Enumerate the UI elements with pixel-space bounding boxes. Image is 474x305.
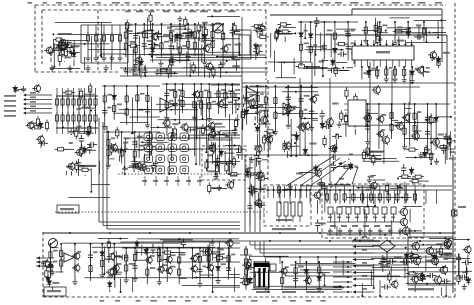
- central wiring drop: [124, 143, 126, 174]
- transistor Q100: [225, 180, 233, 189]
- resistor R213: [215, 163, 218, 175]
- transistor Q67: [189, 264, 197, 273]
- node junction: [191, 247, 193, 249]
- node junction: [304, 117, 306, 119]
- node junction: [218, 254, 220, 256]
- output wiring run: [452, 239, 470, 241]
- node junction: [228, 173, 230, 175]
- central wiring drop: [219, 133, 221, 174]
- value label: [137, 136, 143, 138]
- node junction: [358, 187, 360, 189]
- value label: [426, 260, 433, 262]
- central wiring run: [200, 134, 240, 136]
- node junction: [361, 66, 363, 68]
- bias bus: [56, 95, 98, 97]
- stripe wire: [333, 261, 352, 263]
- resistor R109: [201, 124, 204, 136]
- IF wiring run: [156, 72, 178, 74]
- transistor Q95: [107, 252, 115, 261]
- connector label: [30, 97, 36, 99]
- footer text mark: [99, 300, 104, 302]
- contact label: [355, 217, 359, 219]
- ground: [462, 284, 467, 290]
- audio driver top bus: [122, 247, 240, 249]
- part number label: [125, 11, 130, 13]
- ground: [377, 36, 382, 42]
- node junction: [193, 83, 195, 85]
- IC U2 bottom pin: [411, 60, 413, 67]
- bank2 wiring drop: [324, 186, 326, 212]
- power supply branch: [318, 262, 320, 287]
- node junction: [125, 247, 127, 249]
- wire: [150, 23, 152, 31]
- capacitor C4: [168, 42, 173, 52]
- IC U2 bottom pin: [367, 60, 369, 67]
- wire: [18, 88, 23, 90]
- header text mark: [183, 2, 188, 4]
- ground: [72, 279, 77, 285]
- footer text mark: [203, 300, 208, 302]
- wire: [437, 256, 451, 258]
- harness bend: [263, 241, 265, 257]
- switch contact: [373, 207, 378, 214]
- value label: [122, 168, 128, 170]
- node junction: [207, 266, 209, 268]
- footer text mark: [150, 300, 157, 302]
- value label: [398, 26, 403, 28]
- value label: [21, 88, 26, 90]
- audio driver branch: [178, 248, 180, 284]
- header text mark: [350, 2, 358, 4]
- switch lead: [348, 214, 350, 222]
- transistor Q59: [72, 251, 80, 260]
- bus wire lower: [352, 14, 442, 16]
- value label: [217, 131, 221, 133]
- central wiring run: [225, 144, 240, 146]
- bus wire: [441, 9, 443, 62]
- bank tail: [349, 228, 351, 236]
- bus wire: [446, 35, 448, 160]
- psu wiring drop: [265, 258, 267, 272]
- input wire: [36, 257, 54, 259]
- bottom wiring drop: [218, 241, 220, 255]
- wire: [109, 290, 111, 292]
- wire: [287, 151, 289, 158]
- harness label: [362, 236, 367, 238]
- node junction: [121, 131, 123, 133]
- resistor R187: [406, 272, 418, 275]
- resistor R193: [244, 246, 247, 258]
- IC U3 right pin: [366, 121, 370, 123]
- node junction: [267, 189, 269, 191]
- value label: [332, 103, 338, 105]
- tone stage branch: [246, 86, 248, 125]
- mic preamp branch: [60, 244, 62, 273]
- node junction: [274, 85, 276, 87]
- ground: [145, 122, 150, 128]
- value label: [327, 29, 333, 31]
- harness row: [356, 278, 374, 280]
- node junction: [423, 21, 425, 23]
- resistor R20: [211, 39, 214, 51]
- contact label: [373, 217, 377, 219]
- node junction: [137, 32, 139, 34]
- capacitor C96: [129, 163, 139, 168]
- bank branch: [370, 185, 372, 202]
- node junction: [90, 191, 92, 193]
- node junction: [375, 158, 377, 160]
- wire: [398, 36, 400, 43]
- value label: [443, 258, 448, 260]
- node junction: [174, 119, 176, 121]
- value label: [283, 189, 288, 191]
- transistor Q42: [216, 99, 224, 108]
- value label: [28, 122, 36, 124]
- switch cell Q13: [180, 155, 189, 163]
- mic preamp branch: [101, 244, 103, 273]
- bottom wiring run: [137, 238, 239, 240]
- ground: [106, 162, 111, 168]
- audio driver link: [159, 259, 167, 261]
- node junction: [329, 189, 331, 191]
- value label: [204, 90, 209, 92]
- node junction: [254, 123, 256, 125]
- switch contact: [328, 207, 333, 214]
- capacitor C66: [181, 238, 186, 248]
- psu wiring run: [252, 289, 343, 291]
- wire: [84, 93, 94, 95]
- node junction: [100, 56, 102, 58]
- value label: [368, 176, 374, 178]
- node junction: [257, 271, 259, 273]
- node junction: [146, 85, 148, 87]
- wire: [129, 69, 142, 71]
- input wiring drop: [84, 57, 86, 70]
- header text mark: [252, 2, 256, 4]
- value label: [234, 33, 240, 35]
- node junction: [465, 279, 467, 281]
- node junction: [224, 83, 226, 85]
- diode D34: [144, 247, 148, 255]
- transistor Q54: [376, 115, 384, 124]
- transistor Q85: [381, 135, 390, 145]
- module box U1: [233, 30, 251, 59]
- transistor Q20: [411, 256, 420, 266]
- resistor R22: [172, 34, 184, 37]
- resistor R154: [369, 191, 372, 203]
- wire: [256, 134, 258, 146]
- wire: [256, 29, 258, 35]
- node junction: [212, 291, 214, 293]
- wire: [207, 133, 209, 140]
- header text mark: [154, 2, 160, 4]
- resistor R191: [75, 161, 78, 173]
- switch contact: [277, 202, 281, 216]
- node junction: [404, 44, 406, 46]
- switch cell Q2: [144, 133, 153, 141]
- wire: [138, 65, 140, 71]
- IF wiring run: [123, 53, 160, 55]
- wire: [354, 129, 356, 135]
- transistor Q96: [106, 267, 114, 276]
- node junction: [412, 271, 414, 273]
- node junction: [52, 33, 54, 35]
- transistor Q88: [425, 115, 434, 125]
- input wiring drop: [53, 43, 55, 67]
- wire: [133, 171, 135, 172]
- IC U2 bottom pin: [404, 60, 406, 67]
- capacitor C43: [309, 107, 314, 117]
- wire: [63, 60, 65, 63]
- wire: [235, 128, 237, 130]
- capacitor C9: [148, 42, 158, 47]
- resistor R168: [133, 252, 136, 264]
- resistor R103: [208, 100, 211, 112]
- wire: [64, 148, 75, 150]
- resistor R54: [393, 66, 396, 78]
- output wiring run: [371, 276, 430, 278]
- resistor R161: [49, 249, 52, 261]
- psu wiring run: [256, 285, 342, 287]
- diode D23: [303, 147, 307, 155]
- preamp lower branch: [134, 132, 136, 165]
- bus wire: [242, 86, 420, 88]
- resistor R199: [242, 95, 245, 107]
- node junction: [53, 66, 55, 68]
- switch cell Q10: [144, 155, 153, 163]
- wire: [252, 195, 254, 198]
- mixer stage link: [167, 89, 176, 91]
- wire: [65, 171, 67, 175]
- node junction: [225, 134, 227, 136]
- resistor R149: [325, 191, 328, 203]
- value label: [443, 52, 450, 54]
- oscillator stage branch: [435, 104, 437, 150]
- capacitor C57: [397, 184, 402, 194]
- output wiring run: [429, 237, 453, 239]
- tone stage link: [312, 119, 318, 121]
- wire: [127, 29, 129, 40]
- IF stage branch: [212, 24, 214, 55]
- node junction: [444, 237, 446, 239]
- node junction: [107, 131, 109, 133]
- connector pin label: [4, 100, 16, 102]
- footer text mark: [221, 300, 226, 302]
- wire: [176, 41, 178, 50]
- mixer stage branch: [200, 84, 202, 116]
- wire: [223, 257, 229, 259]
- bank branch: [405, 185, 407, 202]
- module inner box: [239, 35, 250, 55]
- bias branch: [56, 88, 58, 134]
- header text mark: [82, 2, 88, 4]
- IF stage branch: [160, 24, 162, 57]
- audio driver branch: [208, 248, 210, 278]
- value label: [389, 67, 393, 69]
- node junction: [179, 23, 181, 25]
- resistor R106: [231, 88, 234, 100]
- value label: [178, 100, 183, 102]
- transistor Q46: [206, 121, 214, 130]
- wire: [114, 271, 122, 273]
- transistor Q49: [309, 95, 317, 104]
- ground: [410, 78, 415, 84]
- module right wiring drop: [280, 62, 282, 78]
- output wiring run: [406, 283, 456, 285]
- wire: [115, 256, 122, 258]
- resistor R65: [61, 96, 64, 108]
- ground: [317, 286, 322, 292]
- transistor Q1 input: [56, 41, 66, 52]
- stage box right: [127, 25, 129, 63]
- switch lead: [330, 214, 332, 222]
- node junction: [131, 132, 133, 134]
- transistor Q90: [372, 85, 381, 95]
- dashed inner box right: [265, 10, 267, 80]
- output wiring run: [411, 271, 467, 273]
- node junction: [149, 131, 151, 133]
- tone wiring run: [301, 117, 318, 119]
- value label: [426, 67, 430, 69]
- value label: [221, 263, 226, 265]
- node junction: [273, 189, 275, 191]
- value label: [363, 72, 369, 74]
- value label: [111, 137, 115, 139]
- bank2 wiring run: [346, 197, 411, 199]
- node junction: [152, 23, 154, 25]
- tone wiring drop: [259, 113, 261, 155]
- mixer stage branch: [224, 84, 226, 118]
- value label: [304, 42, 309, 44]
- node junction: [278, 189, 280, 191]
- node junction: [318, 261, 320, 263]
- wire: [342, 123, 349, 125]
- bus wire right: [452, 155, 454, 293]
- wire: [114, 276, 116, 287]
- resistor R74: [83, 112, 86, 124]
- value label: [259, 188, 266, 190]
- node junction: [347, 266, 349, 268]
- resistor R177: [161, 251, 173, 254]
- switch lead: [375, 214, 377, 222]
- osc wiring drop: [408, 102, 410, 123]
- resistor R4: [110, 32, 113, 44]
- capacitor C63: [226, 264, 231, 274]
- node junction: [200, 83, 202, 85]
- inter-stage wire: [329, 78, 331, 182]
- value label: [128, 30, 132, 32]
- meter M1: [213, 23, 223, 33]
- node junction: [300, 85, 302, 87]
- value label: [309, 143, 316, 145]
- value label: [450, 151, 455, 153]
- value label: [170, 254, 176, 256]
- ground: [48, 49, 53, 55]
- resistor R112: [205, 159, 208, 171]
- resistor R31: [192, 62, 195, 74]
- harness row: [356, 291, 374, 293]
- transistor Q19: [424, 246, 433, 256]
- dotted divider: [118, 173, 268, 175]
- transistor Q77: [463, 245, 471, 254]
- harness label: [362, 288, 367, 290]
- bank tail label: [348, 230, 353, 232]
- IC U2 top pin: [392, 40, 394, 46]
- bank2 wiring drop: [367, 193, 369, 206]
- psu wiring run: [250, 271, 323, 273]
- value label: [202, 22, 208, 24]
- value label: [259, 110, 265, 112]
- ground: [117, 55, 122, 61]
- resistor R61: [32, 126, 44, 129]
- wire: [371, 150, 384, 152]
- connector wire: [26, 99, 52, 101]
- resistor R70: [72, 112, 75, 124]
- switch cell Q17: [180, 166, 189, 174]
- wire: [435, 248, 437, 260]
- resistor R120: [300, 108, 303, 120]
- wire: [322, 59, 329, 61]
- input arrow: [37, 256, 41, 259]
- resistor R95: [165, 99, 168, 111]
- header text mark: [209, 2, 217, 4]
- node junction: [100, 54, 102, 56]
- node junction: [194, 23, 196, 25]
- wire: [160, 68, 162, 75]
- resistor R107: [202, 127, 214, 130]
- wire: [166, 128, 168, 136]
- node junction: [170, 53, 172, 55]
- IF stage branch: [143, 24, 145, 56]
- wire: [211, 251, 220, 253]
- value label: [53, 261, 57, 263]
- transformer T1: [254, 262, 269, 288]
- wire: [212, 187, 227, 189]
- resistor R62: [36, 116, 39, 128]
- input wiring run: [50, 67, 80, 69]
- ground: [103, 65, 108, 71]
- switch cell Q6: [144, 144, 153, 152]
- central wiring run: [184, 96, 240, 98]
- harness row: [356, 246, 374, 248]
- IC U3 right pin: [366, 103, 370, 105]
- wire: [71, 171, 73, 175]
- oscillator stage top bus: [362, 103, 450, 105]
- header text mark: [405, 2, 411, 4]
- node junction: [450, 116, 452, 118]
- switch contact: [382, 207, 387, 214]
- midband sparse wiring run: [68, 196, 110, 198]
- osc wiring drop: [430, 134, 432, 164]
- capacitor C52: [322, 183, 327, 193]
- node junction: [160, 23, 162, 25]
- value label: [155, 45, 160, 47]
- IF stage branch: [187, 24, 189, 54]
- bus wire: [165, 261, 240, 263]
- wire: [66, 50, 71, 52]
- transistor Q26: [398, 217, 407, 227]
- resistor R127: [340, 110, 343, 122]
- bottom wiring run: [84, 277, 218, 279]
- node junction: [49, 243, 51, 245]
- resistor R68: [66, 112, 69, 124]
- psu wiring run: [249, 255, 288, 257]
- connector arrow: [23, 98, 26, 101]
- diode D35: [135, 240, 139, 248]
- resistor R99: [193, 99, 196, 111]
- value label: [53, 250, 58, 252]
- node junction: [385, 30, 387, 32]
